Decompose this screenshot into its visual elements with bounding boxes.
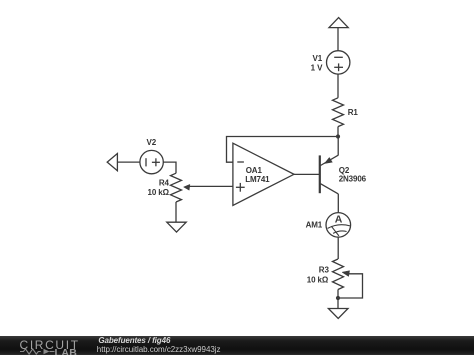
wire V2 to R4 bbox=[163, 162, 176, 173]
label R4 bbox=[159, 179, 170, 188]
resistor R4 (potentiometer) bbox=[171, 173, 182, 202]
wire flag to V1 bbox=[337, 28, 339, 51]
CircuitLab logo resistor zigzag bbox=[20, 348, 56, 355]
node flag (up arrow) at V1 top bbox=[329, 18, 348, 28]
voltage source V2 bbox=[140, 150, 163, 173]
svg-text:R3: R3 bbox=[319, 265, 330, 274]
label V1 value 1 V bbox=[311, 64, 323, 73]
wire AM1 to R3 bbox=[337, 238, 339, 259]
svg-text:OA1: OA1 bbox=[246, 166, 263, 175]
CircuitLab logo wordmark CIRCUIT bbox=[20, 338, 80, 352]
label R3 bbox=[319, 265, 330, 274]
label V1 bbox=[313, 54, 323, 63]
svg-text:R4: R4 bbox=[159, 179, 170, 188]
wire op-amp output to Q2 base bbox=[294, 173, 319, 175]
label R4 value 10 k bbox=[148, 188, 170, 197]
wire node A to Q2 emitter bbox=[337, 137, 339, 156]
svg-text:2N3906: 2N3906 bbox=[339, 175, 367, 184]
ammeter AM1 bbox=[326, 213, 351, 238]
label Q2 bbox=[339, 166, 350, 175]
transistor Q2 (PNP) bbox=[320, 155, 339, 194]
svg-text:10 kΩ: 10 kΩ bbox=[148, 188, 170, 197]
junction node B at R3 bottom bbox=[336, 296, 340, 300]
wire R1 to node A bbox=[337, 127, 339, 137]
svg-text:AM1: AM1 bbox=[306, 220, 323, 229]
wire V1 to R1 bbox=[337, 74, 339, 98]
footer bar bbox=[0, 336, 474, 355]
svg-text:Q2: Q2 bbox=[339, 166, 350, 175]
label AM1 bbox=[306, 220, 323, 229]
footer URL bbox=[97, 345, 221, 354]
junction node A bbox=[336, 134, 340, 138]
footer credit Gabefuentes / fig46 bbox=[98, 336, 170, 345]
R3 wiper arrow bbox=[342, 271, 350, 277]
label R1 bbox=[348, 108, 359, 117]
resistor R1 bbox=[333, 98, 344, 127]
feedback wire node A to op-amp inverting input bbox=[227, 137, 339, 163]
R3 wiper loop wire bbox=[340, 274, 363, 298]
label R3 value 10 k bbox=[307, 275, 329, 284]
svg-text:LM741: LM741 bbox=[245, 175, 270, 184]
wire flag to V2 bbox=[117, 161, 140, 163]
label 2N3906 bbox=[339, 175, 367, 184]
label V2 bbox=[147, 138, 157, 147]
svg-text:10 kΩ: 10 kΩ bbox=[307, 275, 329, 284]
svg-text:1 V: 1 V bbox=[311, 64, 323, 73]
wire R3 to ground bbox=[337, 290, 339, 309]
svg-text:R1: R1 bbox=[348, 108, 359, 117]
svg-text:A: A bbox=[335, 214, 343, 226]
svg-text:V2: V2 bbox=[147, 138, 157, 147]
CircuitLab logo wordmark LAB bbox=[55, 347, 78, 355]
wire R4 to ground bbox=[175, 202, 177, 222]
resistor R3 (potentiometer) bbox=[333, 259, 344, 290]
ground (left) bbox=[167, 222, 186, 232]
label OA1 bbox=[246, 166, 263, 175]
R4 wiper arrow bbox=[184, 184, 190, 190]
svg-text:V1: V1 bbox=[313, 54, 323, 63]
node flag (left arrow) at V2 bbox=[107, 154, 117, 171]
wire Q2 collector to AM1 bbox=[337, 194, 339, 212]
label LM741 bbox=[245, 175, 270, 184]
voltage source V1 bbox=[327, 51, 350, 74]
op-amp U1 OA1 body bbox=[233, 143, 294, 205]
ground (bottom) bbox=[328, 309, 348, 319]
wire R4 wiper to op-amp non-inverting input bbox=[189, 185, 233, 187]
